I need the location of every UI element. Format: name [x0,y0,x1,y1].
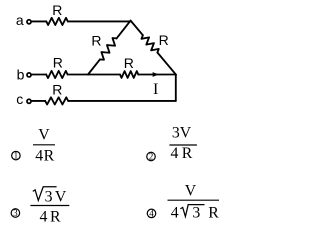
svg-text:3: 3 [192,204,200,221]
svg-text:4: 4 [35,148,43,165]
svg-text:b: b [17,67,25,83]
svg-text:V: V [55,188,67,205]
svg-text:R: R [52,2,62,18]
svg-text:R: R [50,209,61,226]
svg-text:1: 1 [14,151,19,161]
svg-text:R: R [44,148,55,165]
svg-text:R: R [52,82,62,98]
svg-text:2: 2 [149,151,154,161]
svg-text:c: c [16,91,23,107]
svg-text:4: 4 [40,209,48,226]
svg-text:I: I [153,81,158,98]
svg-text:3: 3 [13,208,18,218]
svg-text:R: R [91,33,101,49]
svg-text:4: 4 [149,208,154,218]
svg-text:R: R [208,204,219,221]
svg-text:R: R [124,55,134,71]
svg-text:a: a [16,12,24,28]
svg-text:3V: 3V [172,125,192,142]
svg-text:4: 4 [171,204,179,221]
svg-text:V: V [185,182,197,199]
svg-text:R: R [53,54,63,70]
svg-text:R: R [159,32,169,48]
svg-text:V: V [38,127,50,144]
svg-text:4: 4 [171,145,179,162]
svg-text:R: R [182,145,193,162]
svg-text:3: 3 [45,188,53,205]
